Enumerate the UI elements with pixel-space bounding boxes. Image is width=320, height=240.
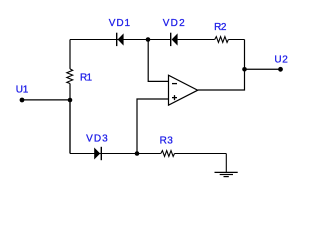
svg-text:R1: R1 bbox=[80, 72, 93, 83]
diode VD3 bbox=[94, 147, 101, 160]
terminal dot U2 bbox=[278, 67, 283, 72]
svg-text:VD1: VD1 bbox=[109, 18, 131, 29]
svg-text:R3: R3 bbox=[160, 135, 174, 146]
wire: left vertical from top net down to R1 bbox=[69, 40, 71, 69]
node B junction dot (VD1/VD2/inverting input) bbox=[146, 37, 151, 42]
resistor R2 bbox=[215, 37, 229, 43]
node C junction dot (VD3 / R3 / non-inverting input) bbox=[135, 151, 140, 156]
wire: bottom net from R3 to ground bbox=[175, 153, 227, 155]
resistor R1 bbox=[67, 69, 73, 84]
svg-text:U2: U2 bbox=[274, 55, 288, 66]
ground bbox=[215, 154, 238, 177]
wire: U1 terminal to node A bbox=[22, 99, 70, 101]
wire: inverting input branch from node B bbox=[148, 40, 168, 82]
wire: top net from VD2 to R2 bbox=[178, 39, 215, 41]
svg-text:VD3: VD3 bbox=[86, 133, 108, 144]
wire: top net from R1 corner to VD2 bbox=[70, 39, 170, 41]
wire: non-inverting input branch from node C bbox=[137, 99, 169, 154]
wire: top net from R2 to output corner bbox=[228, 39, 244, 41]
wire: bottom net from node C to R3 bbox=[137, 153, 161, 155]
wire: bottom net from left vertical to VD3 bbox=[70, 153, 137, 155]
resistor R3 bbox=[161, 151, 175, 157]
diode VD2 bbox=[171, 33, 178, 46]
terminal dot U1 bbox=[20, 98, 25, 103]
wire: node D to U2 terminal bbox=[245, 68, 281, 70]
wire: op-amp output to feedback corner bbox=[198, 40, 245, 91]
node D junction dot (output / U2 tap) bbox=[242, 67, 247, 72]
node A junction dot (R1 bottom / U1 / VD3 branch) bbox=[68, 98, 73, 103]
op-amp U1 (comparator) bbox=[169, 75, 198, 105]
svg-text:R2: R2 bbox=[214, 22, 227, 33]
wire: node A down to bottom net bbox=[69, 100, 71, 154]
svg-text:VD2: VD2 bbox=[163, 18, 185, 29]
wire: left vertical from R1 down to bottom net bbox=[69, 84, 71, 154]
svg-text:U1: U1 bbox=[16, 85, 29, 96]
diode VD1 bbox=[117, 33, 124, 46]
